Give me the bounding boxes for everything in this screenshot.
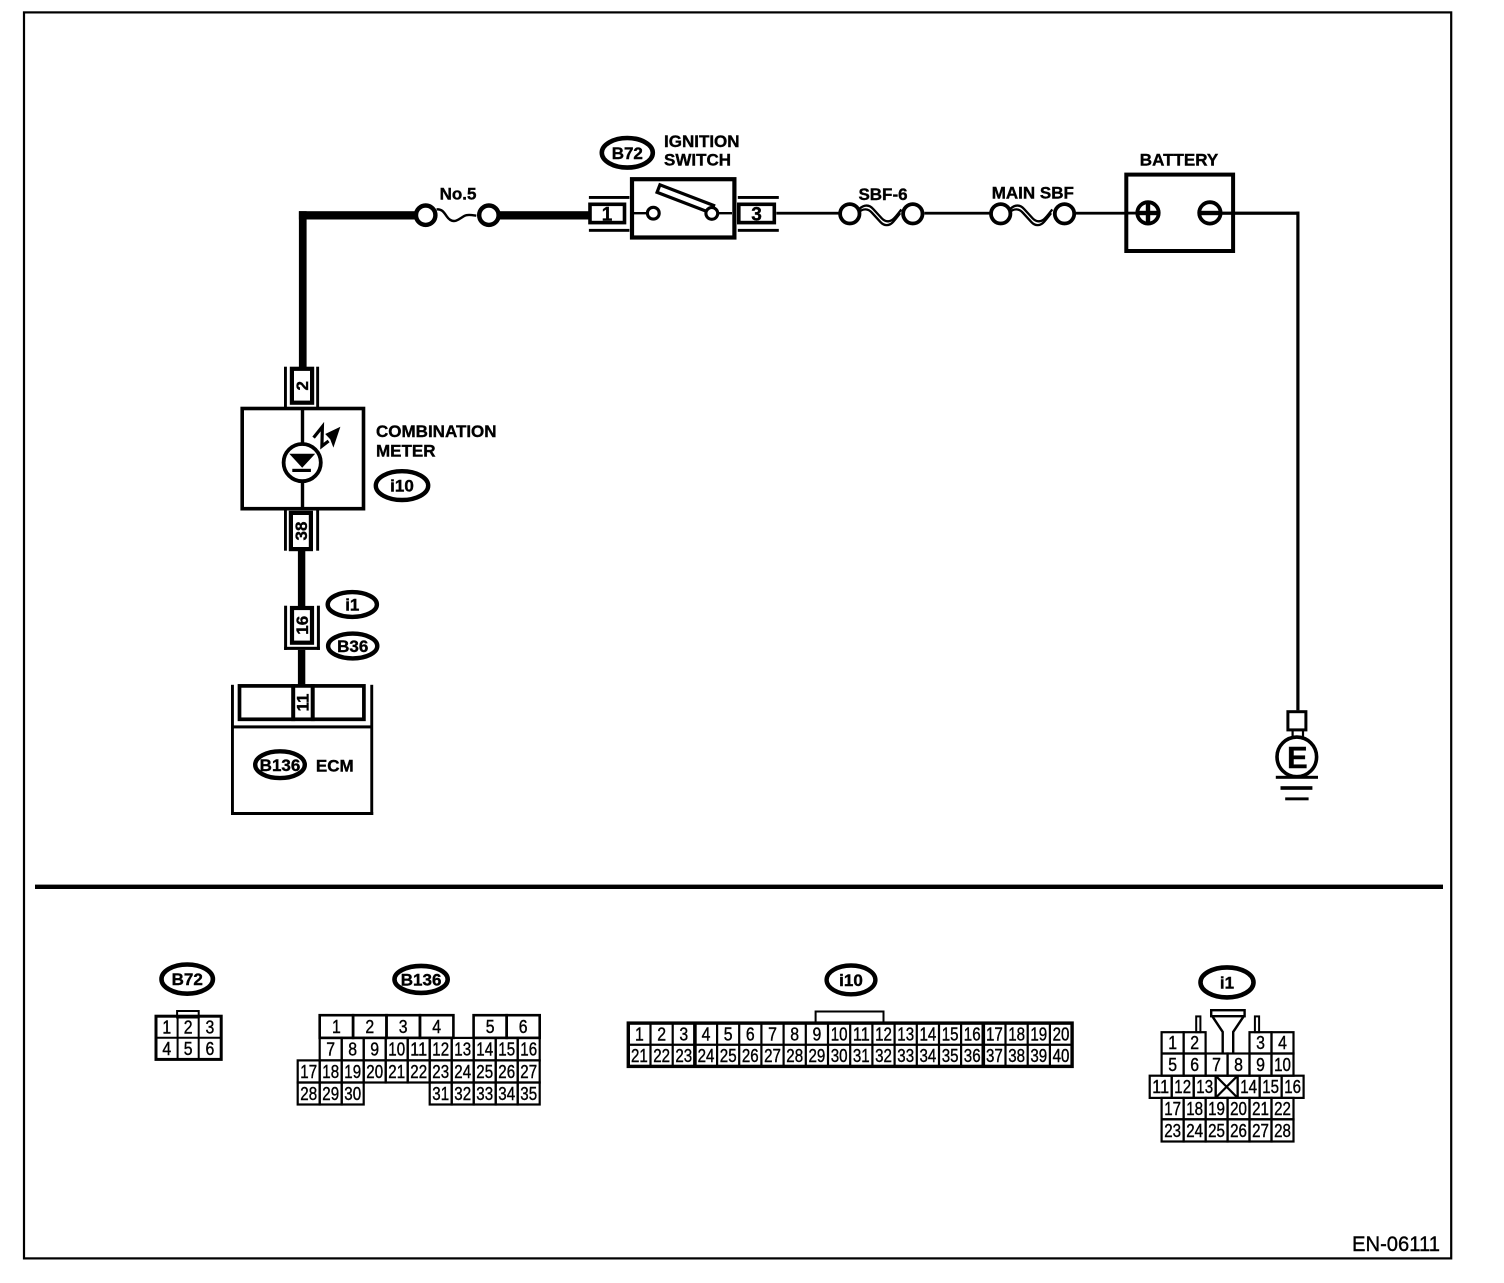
svg-text:25: 25 (1208, 1121, 1225, 1141)
pin 14 cell (1238, 1076, 1260, 1098)
pin 8 cell (1228, 1054, 1250, 1076)
svg-text:8: 8 (348, 1040, 357, 1060)
B72 keying tab (177, 1011, 199, 1018)
wire: MAIN SBF to battery (1076, 212, 1136, 215)
pin 27 cell (1250, 1119, 1272, 1141)
svg-text:i1: i1 (345, 596, 359, 615)
svg-text:17: 17 (1164, 1099, 1181, 1119)
pin 21 cell (386, 1060, 408, 1082)
i10 keying tab (816, 1012, 884, 1024)
pin 24 cell (1184, 1119, 1206, 1141)
pin 18 cell (320, 1060, 342, 1082)
svg-text:18: 18 (1186, 1099, 1203, 1119)
pin 16 junction (i1 / B36) (284, 606, 320, 650)
svg-text:12: 12 (432, 1040, 449, 1060)
svg-text:25: 25 (476, 1062, 493, 1082)
svg-text:17: 17 (300, 1062, 317, 1082)
blank cell (1216, 1076, 1238, 1098)
svg-text:19: 19 (344, 1062, 361, 1082)
pin 35 cell (518, 1083, 540, 1105)
pin 30 cell (342, 1083, 364, 1105)
svg-text:11: 11 (294, 694, 313, 712)
svg-text:28: 28 (1274, 1121, 1291, 1141)
pin 34 cell (496, 1083, 518, 1105)
pin 23 cell (1162, 1119, 1184, 1141)
pin 38 (combination meter, i10) (284, 509, 319, 551)
pin 15 cell (1260, 1076, 1282, 1098)
svg-text:15: 15 (942, 1024, 959, 1044)
wire: battery to ground drop (1221, 212, 1300, 215)
pin 23 cell (430, 1060, 452, 1082)
connector view B72 (156, 965, 221, 1060)
svg-text:23: 23 (432, 1062, 449, 1082)
i1 keying X cross (1216, 1076, 1238, 1098)
svg-text:19: 19 (1208, 1099, 1225, 1119)
svg-text:40: 40 (1053, 1046, 1070, 1066)
svg-text:13: 13 (454, 1040, 471, 1060)
pin 22 cell (1272, 1098, 1294, 1119)
i10 pin grid frame (628, 1023, 1072, 1066)
svg-text:31: 31 (432, 1084, 449, 1104)
svg-text:5: 5 (184, 1039, 193, 1059)
svg-text:23: 23 (1164, 1121, 1181, 1141)
svg-text:11: 11 (410, 1040, 427, 1060)
pin 6 cell (507, 1015, 540, 1038)
ground connector square (1288, 712, 1306, 730)
svg-text:29: 29 (809, 1046, 826, 1066)
pin 17 cell (1162, 1098, 1184, 1119)
svg-text:26: 26 (742, 1046, 759, 1066)
svg-text:B72: B72 (172, 970, 203, 989)
fuse No.5 (416, 206, 499, 225)
pin 28 cell (1272, 1119, 1294, 1141)
svg-text:3: 3 (679, 1024, 688, 1044)
svg-text:1: 1 (1168, 1033, 1177, 1053)
ECM box bottom (231, 812, 373, 815)
pin 19 cell (1206, 1098, 1228, 1119)
i1 top tabs (1196, 1016, 1200, 1032)
pin 18 cell (1184, 1098, 1206, 1119)
svg-text:18: 18 (322, 1062, 339, 1082)
svg-text:24: 24 (454, 1062, 471, 1082)
connector view B136 (298, 966, 540, 1105)
pin 9 cell (1250, 1054, 1272, 1076)
svg-text:6: 6 (206, 1039, 215, 1059)
svg-text:E: E (1287, 740, 1308, 775)
svg-text:6: 6 (746, 1024, 755, 1044)
svg-text:37: 37 (986, 1046, 1003, 1066)
svg-text:IGNITION: IGNITION (664, 132, 740, 151)
svg-text:7: 7 (768, 1024, 777, 1044)
pin 3 (ignition switch) (738, 196, 779, 232)
svg-text:i1: i1 (1220, 974, 1234, 993)
pin 20 cell (364, 1060, 386, 1082)
separator line (35, 885, 1443, 889)
svg-text:BATTERY: BATTERY (1140, 151, 1219, 170)
i1 keying funnel (1211, 1010, 1244, 1016)
pin 11 cell (1150, 1076, 1172, 1098)
pin 16 cell (1282, 1076, 1304, 1098)
ground E circle (1277, 737, 1317, 777)
svg-text:SBF-6: SBF-6 (858, 185, 907, 204)
svg-text:16: 16 (964, 1024, 981, 1044)
svg-text:6: 6 (1190, 1055, 1199, 1075)
pin 7 cell (320, 1038, 342, 1061)
svg-text:21: 21 (1252, 1099, 1269, 1119)
connector i1 oval (1201, 967, 1254, 997)
svg-text:20: 20 (1230, 1099, 1247, 1119)
svg-text:10: 10 (1274, 1055, 1291, 1075)
svg-text:B36: B36 (337, 637, 368, 656)
connector B136 oval (395, 966, 448, 993)
svg-text:27: 27 (1252, 1121, 1269, 1141)
ground bars (1276, 776, 1318, 779)
svg-text:27: 27 (764, 1046, 781, 1066)
wire: SBF-6 to MAIN SBF (924, 212, 990, 215)
pin 13 cell (452, 1038, 474, 1061)
pin 33 cell (474, 1083, 496, 1105)
svg-text:26: 26 (1230, 1121, 1247, 1141)
svg-text:2: 2 (365, 1017, 374, 1037)
svg-text:SWITCH: SWITCH (664, 151, 731, 170)
pin 5 cell (1162, 1054, 1184, 1076)
switch contacts (647, 207, 659, 219)
pin 17 cell (298, 1060, 320, 1082)
pin 29 cell (320, 1083, 342, 1105)
fuse MAIN SBF (991, 204, 1074, 225)
wire: thick vertical corner down to pin 2 (299, 211, 307, 368)
pin 1 cell (320, 1015, 353, 1038)
svg-text:2: 2 (184, 1017, 193, 1037)
LED light arrow (314, 427, 341, 448)
connector B72 oval (162, 965, 213, 994)
svg-text:9: 9 (813, 1024, 822, 1044)
svg-text:27: 27 (520, 1062, 537, 1082)
combination meter box (242, 409, 363, 509)
wire: thick feed No.5 fuse to corner (299, 211, 416, 219)
pin 26 cell (1228, 1119, 1250, 1141)
svg-text:20: 20 (1053, 1024, 1070, 1044)
svg-text:12: 12 (875, 1024, 892, 1044)
svg-text:21: 21 (631, 1046, 648, 1066)
pin 31 cell (430, 1083, 452, 1105)
B72 pin grid frame (156, 1016, 221, 1059)
svg-text:14: 14 (920, 1024, 937, 1044)
svg-text:22: 22 (410, 1062, 427, 1082)
svg-text:18: 18 (1008, 1024, 1025, 1044)
switch wires (634, 212, 648, 214)
svg-text:14: 14 (476, 1040, 493, 1060)
svg-text:35: 35 (520, 1084, 537, 1104)
connector oval B136 + label ECM (255, 751, 305, 778)
svg-text:13: 13 (1196, 1077, 1213, 1097)
svg-text:14: 14 (1240, 1077, 1257, 1097)
svg-text:26: 26 (498, 1062, 515, 1082)
svg-text:22: 22 (653, 1046, 670, 1066)
svg-text:32: 32 (875, 1046, 892, 1066)
pin 7 cell (1206, 1054, 1228, 1076)
svg-text:No.5: No.5 (440, 185, 477, 204)
svg-text:2: 2 (657, 1024, 666, 1044)
svg-text:METER: METER (376, 441, 436, 460)
svg-text:6: 6 (519, 1017, 528, 1037)
svg-text:ECM: ECM (316, 756, 354, 775)
svg-text:3: 3 (399, 1017, 408, 1037)
svg-text:8: 8 (790, 1024, 799, 1044)
svg-text:13: 13 (897, 1024, 914, 1044)
pin 1 (ignition switch) (589, 196, 630, 232)
svg-text:B72: B72 (612, 144, 643, 163)
svg-text:23: 23 (675, 1046, 692, 1066)
ignition switch box (632, 179, 734, 237)
pin 6 cell (1184, 1054, 1206, 1076)
wire: pin 16 to ECM (298, 650, 305, 685)
svg-text:2: 2 (293, 381, 312, 390)
svg-text:16: 16 (1284, 1077, 1301, 1097)
svg-text:39: 39 (1030, 1046, 1047, 1066)
svg-text:32: 32 (454, 1084, 471, 1104)
svg-text:19: 19 (1030, 1024, 1047, 1044)
svg-text:1: 1 (162, 1017, 171, 1037)
svg-text:36: 36 (964, 1046, 981, 1066)
pin 2 cell (353, 1015, 386, 1038)
svg-text:34: 34 (920, 1046, 937, 1066)
pin 12 cell (1172, 1076, 1194, 1098)
svg-text:1: 1 (602, 205, 613, 226)
svg-text:25: 25 (720, 1046, 737, 1066)
connector i10 oval (827, 966, 876, 995)
pin 1 cell (1162, 1032, 1184, 1053)
svg-text:7: 7 (1212, 1055, 1221, 1075)
ECM box top line (233, 725, 373, 728)
connector oval B72 (ignition switch) (602, 138, 653, 168)
svg-text:24: 24 (1186, 1121, 1203, 1141)
pin 15 cell (496, 1038, 518, 1061)
svg-text:3: 3 (751, 205, 762, 226)
pin 26 cell (496, 1060, 518, 1082)
pin 25 cell (1206, 1119, 1228, 1141)
pin 20 cell (1228, 1098, 1250, 1119)
pin 19 cell (342, 1060, 364, 1082)
svg-text:9: 9 (370, 1040, 379, 1060)
connector oval i10 (376, 471, 428, 500)
svg-text:31: 31 (853, 1046, 870, 1066)
svg-text:1: 1 (332, 1017, 341, 1037)
svg-text:28: 28 (786, 1046, 803, 1066)
pin 2 (combination meter, i10) (284, 367, 319, 410)
svg-text:28: 28 (300, 1084, 317, 1104)
connector oval B36 (328, 634, 377, 659)
svg-text:5: 5 (724, 1024, 733, 1044)
svg-text:3: 3 (206, 1017, 215, 1037)
svg-text:30: 30 (831, 1046, 848, 1066)
svg-text:11: 11 (853, 1024, 870, 1044)
pin 16 cell (518, 1038, 540, 1061)
pin 27 cell (518, 1060, 540, 1082)
svg-text:15: 15 (1262, 1077, 1279, 1097)
svg-text:4: 4 (702, 1024, 711, 1044)
pin 32 cell (452, 1083, 474, 1105)
svg-text:4: 4 (162, 1039, 171, 1059)
svg-text:12: 12 (1174, 1077, 1191, 1097)
svg-text:21: 21 (388, 1062, 405, 1082)
svg-text:4: 4 (432, 1017, 441, 1037)
svg-text:10: 10 (831, 1024, 848, 1044)
pin 5 cell (474, 1015, 507, 1038)
connector view i10 (628, 966, 1072, 1067)
svg-text:15: 15 (498, 1040, 515, 1060)
svg-text:33: 33 (476, 1084, 493, 1104)
pin 25 cell (474, 1060, 496, 1082)
svg-text:34: 34 (498, 1084, 515, 1104)
svg-text:17: 17 (986, 1024, 1003, 1044)
svg-text:4: 4 (1278, 1033, 1287, 1053)
pin 28 cell (298, 1083, 320, 1105)
LED lamp (284, 444, 321, 481)
svg-text:16: 16 (293, 616, 312, 635)
svg-text:11: 11 (1152, 1077, 1169, 1097)
ECM box right side (370, 685, 373, 815)
svg-text:1: 1 (635, 1024, 644, 1044)
svg-text:7: 7 (326, 1040, 335, 1060)
pin 14 cell (474, 1038, 496, 1061)
svg-text:35: 35 (942, 1046, 959, 1066)
svg-text:8: 8 (1234, 1055, 1243, 1075)
pin 9 cell (364, 1038, 386, 1061)
pin 21 cell (1250, 1098, 1272, 1119)
svg-text:COMBINATION: COMBINATION (376, 422, 497, 441)
pin 4 cell (1272, 1032, 1294, 1053)
wire: thick No.5 fuse to ignition switch pin 1 (500, 211, 590, 219)
pin 4 cell (420, 1015, 453, 1038)
ground neck (1291, 731, 1293, 738)
svg-text:16: 16 (520, 1040, 537, 1060)
svg-text:i10: i10 (839, 971, 863, 990)
svg-text:5: 5 (1168, 1055, 1177, 1075)
svg-text:20: 20 (366, 1062, 383, 1082)
svg-text:10: 10 (388, 1040, 405, 1060)
svg-text:38: 38 (292, 522, 311, 541)
svg-text:i10: i10 (390, 477, 414, 496)
battery + terminal (1126, 202, 1159, 223)
svg-text:30: 30 (344, 1084, 361, 1104)
svg-text:2: 2 (1190, 1033, 1199, 1053)
switch lever (657, 185, 714, 213)
pin 10 cell (1272, 1054, 1294, 1076)
pin 8 cell (342, 1038, 364, 1061)
svg-text:33: 33 (897, 1046, 914, 1066)
wire: pin 3 to SBF-6 (776, 212, 839, 215)
wire inside meter (301, 409, 304, 509)
svg-text:9: 9 (1256, 1055, 1265, 1075)
wire: pin 38 to pin 16 (298, 551, 305, 607)
battery - terminal (1199, 202, 1220, 223)
ECM connector row (240, 686, 364, 719)
ECM box left side (231, 685, 234, 815)
pin 3 cell (1250, 1032, 1272, 1053)
pin 2 cell (1184, 1032, 1206, 1053)
svg-text:29: 29 (322, 1084, 339, 1104)
battery box (1126, 175, 1233, 251)
svg-text:22: 22 (1274, 1099, 1291, 1119)
svg-text:EN-06111: EN-06111 (1352, 1232, 1440, 1256)
svg-text:5: 5 (486, 1017, 495, 1037)
pin 13 cell (1194, 1076, 1216, 1098)
pin 10 cell (386, 1038, 408, 1061)
pin 3 cell (387, 1015, 420, 1038)
svg-text:24: 24 (698, 1046, 715, 1066)
pin 12 cell (430, 1038, 452, 1061)
pin 24 cell (452, 1060, 474, 1082)
pin 22 cell (408, 1060, 430, 1082)
fuse SBF-6 (840, 204, 922, 225)
svg-text:3: 3 (1256, 1033, 1265, 1053)
svg-text:B136: B136 (401, 971, 442, 990)
svg-text:B136: B136 (260, 756, 301, 775)
svg-text:MAIN SBF: MAIN SBF (992, 184, 1074, 203)
svg-text:38: 38 (1008, 1046, 1025, 1066)
connector view i1 (1150, 967, 1304, 1141)
connector oval i1 (328, 592, 377, 617)
pin 11 cell (408, 1038, 430, 1061)
